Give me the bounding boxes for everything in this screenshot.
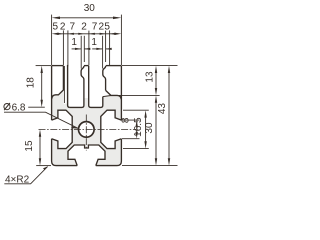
- svg-text:4×R2: 4×R2: [5, 174, 30, 185]
- svg-text:1: 1: [71, 37, 77, 48]
- svg-text:16.5: 16.5: [133, 117, 144, 137]
- svg-text:43: 43: [157, 103, 168, 115]
- svg-text:18: 18: [26, 77, 37, 89]
- svg-text:2: 2: [60, 21, 66, 32]
- svg-text:7: 7: [92, 21, 98, 32]
- svg-text:5: 5: [104, 21, 110, 32]
- svg-text:1: 1: [91, 37, 97, 48]
- svg-text:13: 13: [144, 71, 155, 83]
- svg-text:2: 2: [81, 21, 87, 32]
- svg-text:30: 30: [144, 122, 155, 134]
- svg-text:15: 15: [24, 140, 35, 152]
- svg-text:7: 7: [70, 21, 76, 32]
- svg-text:5: 5: [53, 21, 59, 32]
- svg-text:8: 8: [121, 117, 132, 123]
- svg-text:30: 30: [84, 3, 96, 14]
- svg-text:6.8: 6.8: [12, 103, 26, 114]
